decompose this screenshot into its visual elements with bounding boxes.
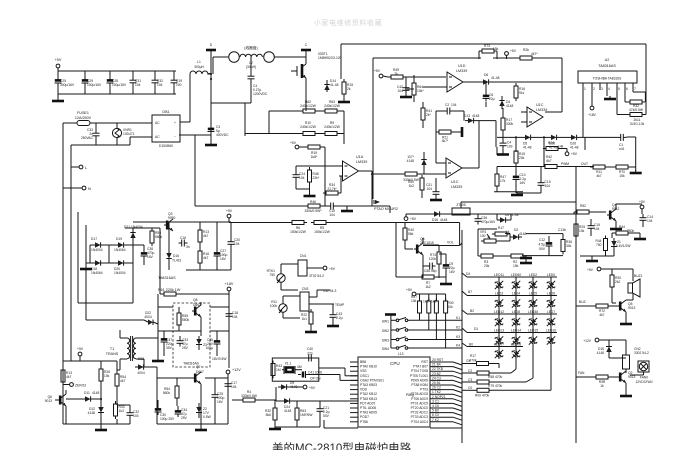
svg-text:R52: R52 [580, 204, 586, 208]
terminal +5V Q4 [616, 200, 646, 214]
svg-text:D16: D16 [173, 254, 179, 258]
svg-text:TRANS: TRANS [106, 352, 119, 356]
resistor R27 [418, 294, 422, 320]
svg-text:D667: D667 [193, 303, 201, 307]
svg-text:C3: C3 [468, 378, 472, 382]
CPU right pin labels [410, 360, 428, 424]
svg-text:4k7: 4k7 [203, 256, 208, 260]
svg-text:0.5W: 0.5W [203, 415, 212, 419]
wire main mid bus y206 [179, 135, 390, 213]
capacitor C28 [107, 71, 127, 94]
resistor R43 [271, 361, 282, 379]
svg-text:104: 104 [232, 315, 238, 319]
terminal +18V [225, 282, 234, 294]
LED LED13 [494, 329, 504, 345]
svg-text:41-48: 41-48 [330, 83, 339, 87]
capacitor C15 [517, 167, 551, 194]
capacitor C19 [171, 71, 183, 94]
svg-text:D2: D2 [514, 228, 518, 232]
terminal ZERO3 [63, 383, 86, 388]
svg-text:OSA2 PTAXS01: OSA2 PTAXS01 [360, 378, 384, 382]
svg-text:VOL: VOL [447, 241, 454, 245]
heating coil L2 [213, 45, 306, 74]
svg-text:T1: T1 [110, 347, 114, 351]
svg-text:7k: 7k [394, 72, 398, 76]
resistor R48 [308, 167, 320, 185]
svg-text:103: 103 [133, 414, 139, 418]
svg-text:4.5µ: 4.5µ [539, 243, 546, 247]
resistor R31 [617, 113, 646, 127]
terminal +5V buzzer [587, 267, 633, 281]
svg-text:25V: 25V [181, 416, 188, 420]
svg-text:1k3: 1k3 [423, 300, 428, 304]
resistor R43b [514, 137, 525, 174]
transistor Q5 [617, 300, 636, 322]
svg-text:12A/250V: 12A/250V [75, 116, 92, 120]
svg-text:50V: 50V [539, 247, 546, 251]
resistor R17c [501, 108, 514, 137]
svg-text:R73: R73 [484, 44, 490, 48]
ground U1A [304, 193, 316, 196]
wire OUT long vertical [575, 166, 577, 443]
transistor Q6z [45, 390, 66, 424]
svg-text:5: 5 [618, 87, 620, 91]
LED LED6 [547, 292, 556, 308]
LED LED4 [512, 292, 521, 308]
svg-text:LED5: LED5 [529, 292, 537, 296]
LED LED12 [494, 310, 504, 326]
svg-text:1k8*: 1k8* [311, 155, 318, 159]
svg-text:AC: AC [155, 135, 160, 139]
diode D20 [114, 260, 127, 275]
transistor Q4 [607, 203, 620, 228]
op-amp U1A [339, 155, 367, 181]
CPU pin numbers [432, 358, 446, 422]
node D terminal [206, 43, 216, 50]
terminal +12V fan [583, 338, 626, 355]
op-amp U1C [521, 103, 547, 127]
svg-text:D11: D11 [84, 391, 90, 395]
svg-text:4k7: 4k7 [203, 234, 208, 238]
resistor R21 [436, 127, 462, 143]
diode D22 [144, 311, 158, 325]
svg-text:SW3: SW3 [382, 339, 389, 343]
svg-text:1k2: 1k2 [425, 285, 430, 289]
capacitor C6 [483, 82, 495, 107]
capacitor C33 [81, 123, 100, 145]
svg-text:3n: 3n [186, 245, 190, 249]
LED LED8 [512, 310, 521, 326]
svg-text:30k: 30k [566, 244, 572, 248]
diode D26 [568, 135, 580, 150]
svg-text:25 B1: 25 B1 [432, 381, 441, 385]
svg-text:4M: 4M [297, 365, 302, 369]
capacitor C32 [152, 71, 164, 94]
svg-text:1: 1 [584, 87, 586, 91]
diode D9b [276, 381, 303, 400]
capacitor C43 [330, 304, 343, 325]
capacitor C2 [436, 103, 464, 132]
svg-text:7: 7 [634, 87, 636, 91]
svg-text:PT32 ADC2: PT32 ADC2 [411, 411, 429, 415]
CPU left pins [350, 362, 358, 422]
wire shunt row [245, 44, 344, 144]
wire U1A input mesh [296, 166, 343, 195]
capacitor C3 [208, 125, 230, 137]
svg-text:120k: 120k [429, 257, 437, 261]
resistor R4b [232, 390, 276, 402]
svg-text:1k: 1k [600, 384, 604, 388]
svg-text:5 B0: 5 B0 [432, 409, 439, 413]
IC U2 TA8316AS [578, 58, 637, 83]
svg-text:PT33 ADC3: PT33 ADC3 [411, 415, 429, 419]
+5V terminal top-left [55, 58, 62, 71]
svg-text:PT86: PT86 [360, 420, 368, 424]
svg-text:PTA0 KB10: PTA0 KB10 [360, 365, 377, 369]
svg-text:R44: R44 [619, 225, 625, 229]
svg-text:BUZ1: BUZ1 [634, 274, 643, 278]
svg-text:3T02 54-2: 3T02 54-2 [309, 274, 324, 278]
svg-text:LM339: LM339 [536, 108, 547, 112]
terminal +5V zero [77, 347, 84, 361]
svg-text:3 C1: 3 C1 [432, 399, 439, 403]
svg-text:+5V: +5V [410, 217, 417, 221]
svg-text:+5V: +5V [406, 288, 413, 292]
svg-text:100: 100 [480, 234, 486, 238]
wire LED row B7 [462, 290, 557, 296]
switch SW3 [382, 337, 410, 343]
svg-text:4148: 4148 [284, 409, 292, 413]
svg-text:4148: 4148 [440, 218, 448, 222]
svg-text:9013: 9013 [45, 399, 53, 403]
svg-text:104: 104 [397, 89, 403, 93]
capacitor C21 [317, 401, 330, 427]
box VR1 [478, 229, 497, 256]
svg-text:330k/0.5W*: 330k/0.5W* [304, 209, 322, 213]
svg-text:4148: 4148 [407, 159, 415, 163]
svg-text:C12: C12 [539, 238, 545, 242]
inductor L1 [180, 60, 211, 122]
svg-text:2 NOP21: 2 NOP21 [432, 395, 446, 399]
svg-text:47k/0.5W: 47k/0.5W [629, 108, 644, 112]
svg-text:4k7: 4k7 [599, 313, 604, 317]
svg-text:LED4: LED4 [512, 292, 520, 296]
ground zero-cross [95, 424, 107, 430]
svg-text:750: 750 [269, 273, 275, 277]
svg-text:N: N [88, 186, 91, 191]
diode D7v [407, 152, 427, 174]
svg-text:1M: 1M [276, 368, 281, 372]
capacitor C38 [133, 245, 155, 265]
svg-text:4148: 4148 [597, 351, 605, 355]
terminal +12V [226, 368, 241, 374]
svg-text:4148: 4148 [88, 411, 96, 415]
svg-text:6 C0: 6 C0 [432, 413, 439, 417]
svg-text:330k/0.5W: 330k/0.5W [241, 394, 258, 398]
terminal +5V CN1 [307, 266, 336, 271]
svg-text:100µ 25V: 100µ 25V [160, 417, 175, 421]
diode TL431 [166, 222, 181, 270]
resistor R9 [322, 121, 341, 136]
svg-text:LED07: LED07 [494, 343, 504, 347]
svg-text:4k7: 4k7 [596, 174, 601, 178]
resistor R10 [300, 121, 318, 136]
capacitor C40 [306, 347, 315, 362]
svg-text:TEMP: TEMP [335, 303, 345, 307]
wire C4 return [211, 103, 251, 136]
capacitor C35 [206, 331, 229, 356]
LED LED15 [528, 329, 538, 345]
svg-text:2: 2 [593, 87, 595, 91]
svg-text:PT01 ADC5: PT01 ADC5 [411, 401, 429, 405]
ground cap bank [52, 94, 64, 101]
ground VOL [440, 281, 452, 284]
svg-text:2SC1815: 2SC1815 [420, 241, 434, 245]
svg-text:104: 104 [545, 184, 551, 188]
svg-text:330k: 330k [506, 122, 514, 126]
svg-text:100k: 100k [270, 304, 278, 308]
svg-text:+5V: +5V [639, 200, 646, 204]
resistor R40 [403, 223, 414, 250]
resistor R45 [612, 225, 640, 238]
ground C15 [511, 192, 523, 195]
terminal +5V reg row [404, 214, 417, 221]
svg-text:R79 470k: R79 470k [488, 384, 502, 388]
diode D14g [324, 79, 338, 92]
diode D6 [480, 73, 562, 85]
wire top long feedback [341, 44, 646, 115]
wire key bus vertical [461, 230, 463, 443]
svg-text:BB6: BB6 [360, 360, 366, 364]
resistor R5m [311, 221, 460, 235]
ground C12 [520, 255, 563, 258]
svg-text:+5V: +5V [374, 69, 381, 73]
svg-text:20k: 20k [519, 156, 525, 160]
resistor R33 [114, 401, 125, 419]
svg-text:4004: 4004 [137, 371, 145, 375]
bridge rectifier DB1 [152, 110, 180, 148]
resistor R74 [423, 245, 441, 278]
resistor R28 [517, 48, 538, 60]
diode D17 [91, 237, 104, 252]
svg-text:LED08: LED08 [511, 343, 521, 347]
svg-text:D23: D23 [138, 357, 144, 361]
transistor Q3s [164, 212, 176, 231]
wire cap bank bottom bus [58, 93, 176, 95]
wire +5V cap bank top bus [58, 70, 176, 72]
svg-text:100µ: 100µ [206, 346, 214, 350]
svg-text:+5V: +5V [77, 347, 84, 351]
svg-text:R24: R24 [548, 141, 554, 145]
transformer T1 [106, 330, 158, 370]
svg-text:21,7k*: 21,7k* [327, 187, 337, 191]
svg-text:35V: 35V [166, 346, 173, 350]
svg-text:10k*: 10k* [417, 89, 424, 93]
resistor R17v [492, 226, 510, 236]
svg-text:750k: 750k [627, 229, 635, 233]
wire left staircase rails [78, 212, 144, 320]
svg-text:400VDC: 400VDC [216, 133, 229, 137]
svg-text:D15XB60: D15XB60 [159, 144, 173, 148]
svg-text:1N4064: 1N4064 [114, 248, 126, 252]
svg-text:FAN0: FAN0 [640, 376, 648, 380]
resistor R32 [625, 92, 645, 112]
svg-text:4148: 4148 [519, 232, 527, 236]
capacitor C31 [130, 71, 142, 94]
svg-text:D: D [210, 43, 213, 47]
svg-text:104: 104 [451, 103, 457, 107]
wire aux supply mesh [133, 222, 231, 270]
capacitor C56 [423, 263, 437, 274]
diode D14r [497, 213, 519, 223]
capacitor C17m [225, 380, 238, 390]
svg-text:PT03: PT03 [420, 388, 428, 392]
op-amp U1B [436, 121, 479, 189]
svg-text:100: 100 [176, 83, 182, 87]
resistor R47 [494, 147, 523, 192]
wire LED row B2 [462, 309, 557, 314]
svg-text:2.2µ: 2.2µ [336, 316, 343, 320]
svg-text:小家电维修资料收藏: 小家电维修资料收藏 [314, 18, 382, 27]
box VOL [396, 223, 462, 278]
svg-text:D16: D16 [432, 218, 438, 222]
svg-text:4k7*: 4k7* [531, 52, 538, 56]
svg-text:PTA5 KB13: PTA5 KB13 [360, 397, 377, 401]
capacitor C14 [640, 214, 654, 227]
svg-text:+5V: +5V [309, 386, 316, 390]
resistor R49 [388, 68, 446, 79]
svg-text:LM339: LM339 [356, 160, 367, 164]
svg-text:21 B4: 21 B4 [432, 363, 441, 367]
capacitor C11 [526, 228, 566, 234]
connector CN3 [300, 287, 337, 311]
svg-text:LED3: LED3 [495, 292, 503, 296]
svg-text:LED8: LED8 [512, 310, 520, 314]
capacitor C30b [155, 400, 175, 421]
svg-text:1k3: 1k3 [119, 409, 124, 413]
svg-text:K4: K4 [456, 344, 460, 348]
svg-text:4148: 4148 [506, 104, 514, 108]
resistor R17k [462, 354, 499, 368]
svg-text:K2: K2 [456, 326, 460, 330]
svg-text:LM339: LM339 [456, 69, 467, 73]
svg-text:104: 104 [231, 385, 237, 389]
svg-text:+5V: +5V [55, 58, 62, 62]
svg-text:18V/0.5W: 18V/0.5W [212, 357, 227, 361]
resistor R2 [508, 254, 526, 268]
svg-text:300µH: 300µH [194, 65, 204, 69]
svg-text:POD7: POD7 [360, 415, 369, 419]
resistor R29k [431, 294, 438, 340]
svg-text:1k1: 1k1 [302, 317, 307, 321]
svg-text:560k: 560k [163, 391, 171, 395]
ground bridge [80, 263, 92, 269]
diode D28 [510, 228, 527, 240]
svg-text:12VDCFAN: 12VDCFAN [635, 380, 653, 384]
svg-text:PTA3 KB03: PTA3 KB03 [360, 383, 377, 387]
svg-text:9013: 9013 [628, 306, 636, 310]
label PTAO MCUR2 [374, 200, 398, 211]
resistor R58k [462, 369, 516, 379]
svg-text:PT05 TL001: PT05 TL001 [410, 374, 428, 378]
ground U1B [430, 197, 442, 200]
svg-text:PTAO MCUR2: PTAO MCUR2 [374, 207, 398, 211]
capacitor C1 [618, 134, 636, 167]
svg-text:20 RST: 20 RST [432, 358, 443, 362]
svg-text:PD7 AD07: PD7 AD07 [360, 401, 376, 405]
svg-text:4k7: 4k7 [120, 379, 125, 383]
svg-text:104: 104 [329, 213, 335, 217]
diode D24 [276, 398, 358, 413]
capacitor C24 [293, 172, 306, 181]
svg-text:LED15: LED15 [528, 329, 538, 333]
wire diode bridge mesh [86, 245, 133, 263]
wire U1A out [359, 171, 403, 206]
wire zero-cross bottom [63, 370, 130, 424]
svg-text:240k/1/2W: 240k/1/2W [324, 104, 341, 108]
svg-text:104: 104 [647, 219, 653, 223]
diode D25a [522, 135, 534, 150]
resistor R63b [295, 401, 313, 427]
svg-text:PT6- AD06: PT6- AD06 [360, 406, 376, 410]
svg-text:150k/1/2W: 150k/1/2W [314, 230, 331, 234]
wire reg row [406, 213, 578, 215]
svg-text:103: 103 [507, 145, 513, 149]
svg-text:L: L [85, 165, 88, 170]
svg-text:C40: C40 [307, 347, 313, 351]
wire key rows to bus [410, 316, 462, 348]
svg-text:15k: 15k [513, 264, 519, 268]
resistor R79k [462, 378, 533, 388]
wire PWM column [515, 136, 585, 166]
diode D4u [499, 96, 513, 109]
svg-text:K3: K3 [456, 335, 460, 339]
svg-text:1MBH52X3-120: 1MBH52X3-120 [318, 56, 342, 60]
resistor R24 [543, 141, 567, 152]
svg-text:PTA3 AD05: PTA3 AD05 [360, 411, 377, 415]
svg-text:PT06 A0C9: PT06 A0C9 [411, 397, 428, 401]
box crystal osc [272, 358, 319, 381]
capacitor C32z [117, 401, 139, 419]
svg-text:16V: 16V [217, 400, 224, 404]
resistor R72 [576, 300, 617, 317]
svg-text:5.6V1/2W: 5.6V1/2W [616, 244, 631, 248]
diode D18 [91, 260, 104, 275]
capacitor C33m [177, 336, 189, 350]
IGBT IGBT1 [291, 43, 342, 111]
svg-text:4148: 4148 [92, 391, 100, 395]
svg-text:9013: 9013 [628, 375, 636, 379]
svg-text:240k/1/2W: 240k/1/2W [300, 125, 317, 129]
ground Q4 [610, 226, 622, 229]
resistor R16t [198, 245, 209, 270]
resistor R54z [115, 371, 126, 401]
resistor R20m [402, 172, 446, 182]
svg-text:6: 6 [626, 87, 628, 91]
diode D19 [114, 237, 127, 252]
resistor R38 [576, 371, 617, 388]
svg-text:LED2: LED2 [529, 273, 537, 277]
transistor Q8 [192, 298, 201, 336]
resistor R16v [514, 83, 525, 101]
svg-text:C56 56p: C56 56p [424, 269, 437, 273]
svg-text:K1: K1 [456, 316, 460, 320]
wire crystal to cpu [319, 368, 358, 380]
svg-text:3302 54-2: 3302 54-2 [634, 351, 649, 355]
svg-text:91k: 91k [519, 91, 525, 95]
svg-text:41-48: 41-48 [491, 76, 500, 80]
wire VR mesh [496, 234, 532, 264]
